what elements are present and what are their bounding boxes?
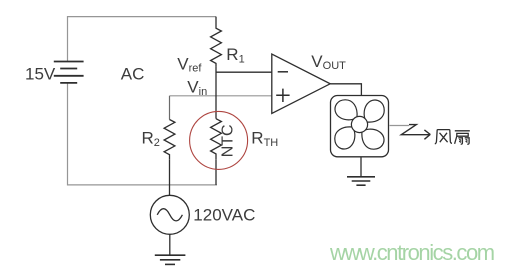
sine wave inside source [157, 209, 182, 221]
wire Vref node to op-amp minus input [216, 71, 272, 73]
wire top rail and left loop [68, 17, 218, 185]
fan hub [351, 116, 367, 132]
wire source bottom to ground [169, 234, 171, 254]
resistor R1 [211, 17, 222, 67]
AC source 120VAC [150, 195, 189, 234]
ground below 120VAC [155, 255, 186, 264]
resistor R2 [164, 120, 175, 160]
wire fan bottom to ground [360, 157, 362, 176]
svg-text:15V: 15V [25, 64, 56, 83]
fan blade top-left [335, 100, 357, 120]
wire NTC bottom lead [215, 159, 217, 185]
svg-text:AC: AC [121, 64, 145, 83]
thermistor RTH (NTC) [211, 119, 222, 160]
wire Vin to op-amp plus input [170, 95, 272, 97]
battery 15V [54, 62, 84, 83]
fan body [331, 96, 389, 157]
op-amp U1 [272, 54, 330, 114]
ground below fan [347, 177, 375, 185]
wire R2 top lead [169, 96, 171, 120]
wire R2 bottom to AC source [169, 159, 171, 195]
wire fan right output [390, 125, 410, 127]
svg-text:120VAC: 120VAC [193, 205, 255, 224]
squiggle arrow to fan label [401, 125, 430, 140]
fan blade bottom-left [335, 127, 355, 149]
red circle around NTC [190, 111, 248, 169]
wire op-amp output to fan [330, 84, 361, 96]
svg-text:NTC: NTC [219, 124, 236, 157]
svg-text:www.cntronics.com: www.cntronics.com [329, 240, 494, 265]
fan blade top-right [364, 100, 384, 122]
wire R1 bottom to NTC top (node column) [215, 67, 217, 119]
fan blade bottom-right [362, 129, 384, 149]
op-amp plus sign [276, 89, 289, 102]
label 风扇 (drawn glyphs) [435, 130, 470, 145]
op-amp minus sign [278, 71, 288, 73]
